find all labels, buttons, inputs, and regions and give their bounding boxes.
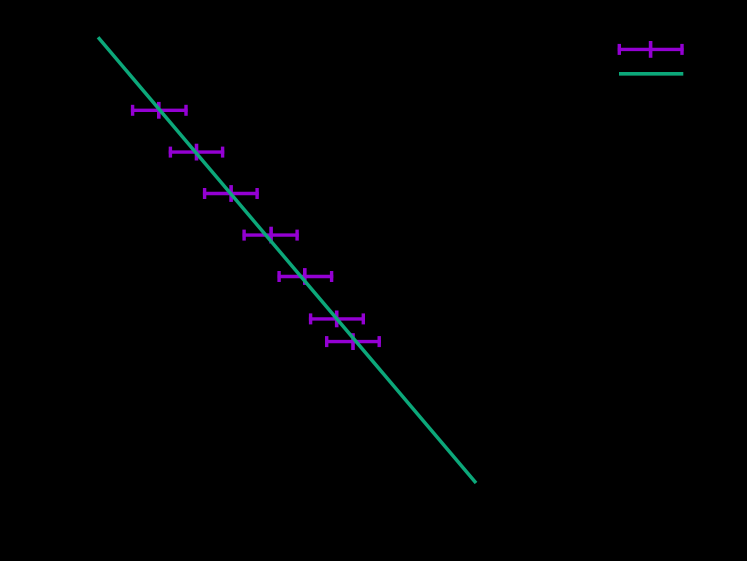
error bar point 7: [325, 333, 381, 350]
legend fit-line sample: [619, 72, 683, 76]
error bar point 4: [242, 227, 298, 244]
error bar point 1: [131, 102, 188, 119]
error bar point 5: [277, 268, 333, 285]
error bar point 2: [169, 144, 225, 161]
fit line (green trend line): [99, 39, 475, 482]
error bar point 3: [203, 185, 259, 202]
error bar point 6: [309, 311, 365, 328]
legend error bar sample: [618, 41, 684, 58]
